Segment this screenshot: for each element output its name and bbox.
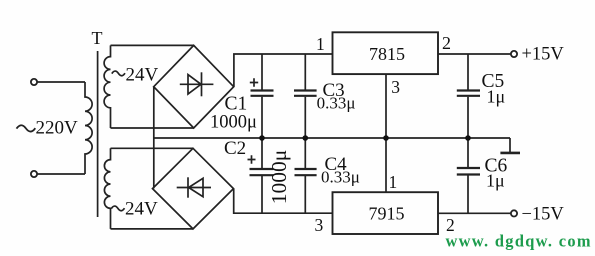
svg-text:1000μ: 1000μ — [267, 150, 291, 205]
svg-text:1: 1 — [316, 34, 325, 54]
capacitor C5 plates — [457, 91, 480, 96]
wire B1 plus to top bus — [234, 54, 333, 87]
capacitor C4 leads — [304, 138, 306, 213]
wire secondary1 top to bridge1 — [111, 44, 194, 46]
secondary winding top — [104, 45, 110, 128]
svg-text:0.33μ: 0.33μ — [317, 94, 356, 113]
diode D1 triangle — [188, 75, 201, 94]
terminal -15V — [511, 210, 517, 216]
svg-text:1μ: 1μ — [487, 87, 506, 107]
junction dot regulators common — [383, 135, 389, 141]
svg-text:T: T — [92, 28, 103, 48]
terminal +15V — [511, 51, 517, 57]
svg-text:220V: 220V — [36, 118, 79, 139]
capacitor C1 plates — [251, 91, 274, 96]
capacitor C2 plates — [250, 169, 274, 175]
svg-text:3: 3 — [315, 215, 324, 235]
terminal bottom-left — [31, 171, 37, 177]
tilde of bottom 24V — [111, 206, 124, 211]
svg-text:7915: 7915 — [369, 203, 405, 223]
svg-text:0.33μ: 0.33μ — [321, 168, 360, 187]
regulator U1 7815 box — [333, 32, 439, 74]
capacitor C1 plus sign — [250, 78, 258, 86]
wire mid ground bus — [154, 137, 510, 139]
diode D2 axis — [177, 187, 211, 189]
svg-text:C2: C2 — [224, 138, 246, 159]
junction dot C3/C4 — [303, 135, 309, 141]
svg-text:1μ: 1μ — [486, 171, 505, 191]
wire common vertical B1 minus to B2 plus — [153, 87, 155, 188]
tilde of top 24V — [112, 71, 125, 76]
capacitor C3 plates — [294, 91, 317, 96]
svg-text:3: 3 — [391, 77, 400, 97]
junction dot C5/C6 — [465, 135, 471, 141]
capacitor C1 leads — [261, 54, 263, 138]
svg-text:1000μ: 1000μ — [210, 113, 257, 133]
capacitor C6 plates — [457, 168, 480, 175]
secondary winding bottom — [104, 148, 110, 229]
capacitor C5 leads — [467, 54, 469, 138]
ground symbol — [509, 138, 511, 152]
regulator U2 7915 box — [333, 192, 439, 234]
wire U1 pin3 to ground bus — [385, 74, 387, 138]
diode D1 axis — [180, 83, 214, 85]
capacitor C6 leads — [467, 138, 469, 213]
diode D1 cathode bar — [201, 72, 203, 96]
svg-text:www. dgdqw. com: www. dgdqw. com — [446, 232, 591, 251]
svg-text:24V: 24V — [126, 65, 159, 86]
wire secondary2 top to bridge2 — [111, 147, 194, 149]
primary winding — [85, 82, 92, 174]
svg-text:1: 1 — [389, 172, 398, 192]
wire B2 minus to bottom bus — [234, 189, 333, 213]
wire primary top — [37, 81, 85, 83]
terminal top-left — [31, 79, 37, 85]
wire U1 output — [438, 53, 511, 55]
wire U2 pin1 to ground bus — [385, 138, 387, 192]
svg-text:7815: 7815 — [369, 44, 405, 64]
capacitor C4 plates — [295, 169, 317, 175]
bridge rectifier B2 diamond — [153, 148, 234, 229]
capacitor C2 plus sign — [248, 155, 256, 163]
svg-text:C1: C1 — [225, 94, 248, 115]
wire secondary2 bottom to bridge2 — [111, 228, 194, 230]
diode D2 triangle — [189, 178, 203, 196]
wire secondary1 bottom to bridge1 — [111, 127, 194, 129]
svg-text:−15V: −15V — [522, 204, 565, 224]
diode D2 cathode bar — [187, 177, 189, 197]
tilde of 220V — [17, 125, 36, 131]
svg-text:24V: 24V — [125, 199, 158, 220]
svg-text:+15V: +15V — [522, 45, 565, 65]
transformer core — [97, 51, 99, 217]
wire U2 output — [438, 212, 511, 214]
capacitor C3 leads — [304, 54, 306, 138]
svg-text:2: 2 — [442, 33, 451, 53]
junction dot C1/C2 — [259, 135, 265, 141]
bridge rectifier B1 diamond — [154, 45, 234, 128]
wire primary bottom — [37, 173, 85, 175]
capacitor C2 leads — [261, 138, 263, 213]
